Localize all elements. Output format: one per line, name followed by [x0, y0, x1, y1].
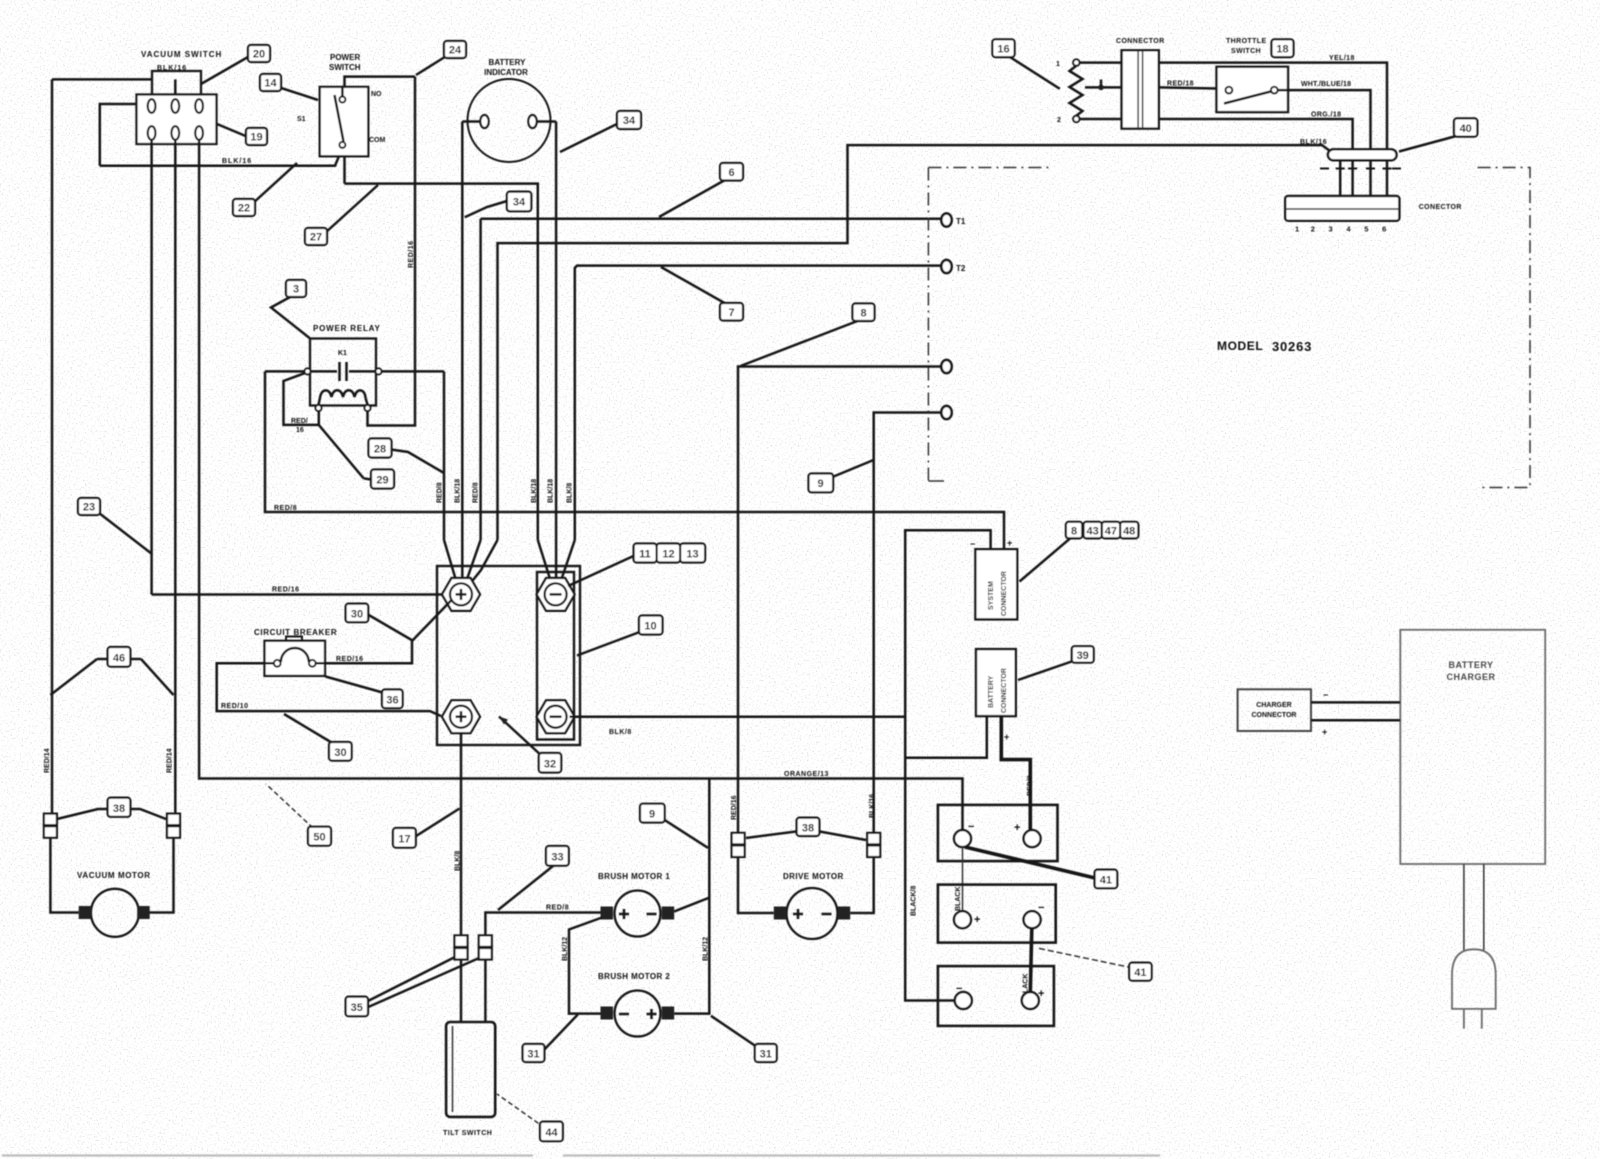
terminal 4 oval	[941, 406, 951, 419]
svg-text:19: 19	[250, 132, 262, 144]
svg-text:SYSTEM: SYSTEM	[988, 581, 995, 610]
vacuum switch pin 1	[148, 99, 156, 113]
svg-text:CHARGER: CHARGER	[1256, 702, 1291, 709]
svg-text:12: 12	[662, 549, 674, 561]
svg-text:38: 38	[802, 823, 814, 835]
wire terminal 3	[738, 367, 941, 833]
wire battery indicator left pin stub	[462, 120, 480, 123]
callout 30 lower	[284, 714, 352, 761]
svg-text:CONNECTOR: CONNECTOR	[1252, 712, 1297, 719]
wire system connector minus loop to BLACK/8 bus	[905, 530, 990, 1000]
brush motor 2 brush left	[601, 1007, 614, 1020]
svg-text:BLK/18: BLK/18	[531, 479, 538, 503]
callout 34 lower	[465, 192, 532, 218]
wire resistor bottom to connector	[1080, 118, 1122, 121]
svg-text:DRIVE MOTOR: DRIVE MOTOR	[783, 872, 844, 881]
svg-text:7: 7	[728, 307, 734, 319]
wire top-left horizontal to vacuum switch tab	[52, 78, 152, 81]
svg-text:16: 16	[997, 44, 1009, 56]
svg-text:10: 10	[644, 621, 656, 633]
svg-text:TILT SWITCH: TILT SWITCH	[443, 1130, 492, 1137]
svg-text:9: 9	[649, 809, 655, 821]
svg-text:−: −	[968, 821, 974, 833]
wire charger connector lower lead	[1311, 719, 1400, 722]
svg-text:+: +	[974, 914, 980, 926]
battery 1 box	[938, 805, 1058, 861]
wire RED/16 from NO down to relay	[368, 77, 416, 426]
brush motor 1 plus sign	[619, 909, 629, 919]
svg-text:35: 35	[351, 1002, 363, 1014]
svg-text:−: −	[1038, 902, 1044, 914]
dashed harness boundary left edge	[927, 168, 929, 482]
svg-text:6: 6	[1382, 225, 1386, 234]
svg-text:18: 18	[1276, 44, 1288, 56]
callout 39	[1018, 646, 1094, 680]
svg-text:ORANGE/13: ORANGE/13	[784, 771, 829, 778]
circuit breaker tab	[286, 637, 302, 642]
wire resistor center tap to connector	[1085, 86, 1122, 89]
connector inner lines	[1137, 50, 1139, 128]
battery 1 minus terminal	[954, 830, 971, 847]
wire battery indicator right pin stub	[537, 120, 556, 123]
terminal 3 oval	[941, 360, 951, 373]
callout 19	[217, 124, 267, 145]
svg-text:BLACK: BLACK	[955, 887, 962, 912]
svg-text:34: 34	[623, 115, 636, 127]
svg-text:50: 50	[313, 832, 325, 844]
inline connector (vacuum right)	[167, 814, 180, 838]
charger plug body	[1452, 949, 1496, 1009]
harness connector oval	[1328, 149, 1397, 160]
svg-text:VACUUM SWITCH: VACUUM SWITCH	[141, 50, 222, 59]
solenoid box	[437, 566, 580, 745]
resistor coil zig-zag	[1070, 66, 1083, 116]
callout 41 upper	[965, 847, 1117, 888]
battery connector box	[976, 649, 1016, 716]
battery 3 plus terminal	[1022, 992, 1039, 1009]
circuit breaker right contact	[309, 660, 316, 667]
svg-text:CONNECTOR: CONNECTOR	[1001, 571, 1008, 616]
wire breaker right RED/16 to solenoid plus	[316, 600, 452, 664]
callout 27	[305, 185, 378, 245]
svg-text:3: 3	[293, 284, 299, 296]
svg-text:BLK/16: BLK/16	[1300, 139, 1327, 146]
vacuum switch pin 2	[171, 99, 179, 113]
wire drive motor left lead lower	[738, 857, 774, 913]
svg-text:+: +	[1038, 988, 1044, 1000]
svg-text:BLK/8: BLK/8	[567, 483, 574, 503]
wire T1	[481, 218, 941, 221]
svg-text:41: 41	[1100, 875, 1112, 887]
callout 38 right	[746, 818, 866, 840]
circuit breaker left contact	[274, 660, 281, 667]
wire charger connector upper lead	[1311, 701, 1400, 704]
circuit breaker arc	[281, 648, 309, 662]
wire RED/16 from pin4 to solenoid plus	[152, 593, 442, 596]
power switch enclosure	[345, 77, 416, 184]
wire relay top left	[265, 370, 305, 373]
svg-text:BLK/18: BLK/18	[455, 479, 462, 503]
pin numbers 1-6	[1295, 225, 1386, 234]
wire BLK/16 to power switch COM	[100, 148, 343, 166]
relay contact wires	[311, 370, 338, 373]
svg-text:WHT./BLUE/18: WHT./BLUE/18	[1301, 81, 1351, 88]
charger connector box	[1238, 689, 1311, 731]
svg-text:RED/8: RED/8	[437, 482, 444, 503]
svg-text:RED/10: RED/10	[221, 703, 249, 710]
callout 31 left	[523, 1015, 578, 1063]
callout 18	[1272, 39, 1294, 57]
tilt switch body	[446, 1022, 495, 1117]
svg-text:38: 38	[113, 803, 125, 815]
six pin connector inner line	[1285, 208, 1399, 210]
harness wire 4 below oval	[1386, 160, 1389, 196]
callout 16	[992, 39, 1059, 89]
svg-text:9: 9	[817, 478, 823, 490]
svg-text:CONECTOR: CONECTOR	[1419, 204, 1462, 211]
wire vacuum pin4 vertical (RED/16 to solenoid)	[150, 140, 153, 595]
brush motor 2 body	[615, 991, 661, 1037]
wire battery indicator left down to solenoid plus	[461, 122, 464, 541]
svg-text:40: 40	[1460, 123, 1472, 135]
brush motor 1 brush left	[601, 907, 614, 920]
svg-text:NO: NO	[371, 91, 382, 98]
harness wire 2 below oval	[1351, 160, 1354, 196]
svg-text:RED/8: RED/8	[274, 505, 297, 512]
callout 24	[416, 41, 466, 75]
svg-text:14: 14	[264, 78, 277, 90]
wire vacuum motor right lead	[149, 838, 173, 913]
wire coil left loop to contact	[284, 373, 319, 425]
relay contact bars	[338, 362, 341, 381]
wire RED/18 to throttle switch	[1159, 87, 1217, 88]
svg-text:1: 1	[1295, 225, 1299, 234]
svg-text:31: 31	[527, 1049, 539, 1061]
svg-text:RED/16: RED/16	[336, 656, 364, 663]
svg-text:THROTTLE: THROTTLE	[1226, 38, 1267, 45]
callout 44	[497, 1094, 563, 1141]
svg-text:BLACK/8: BLACK/8	[911, 886, 918, 916]
svg-text:RED/14: RED/14	[44, 748, 51, 773]
svg-text:13: 13	[686, 549, 698, 561]
vacuum switch tab	[152, 71, 201, 96]
svg-text:44: 44	[545, 1127, 558, 1139]
callout 38 left	[57, 798, 166, 819]
callout 29	[319, 425, 394, 489]
wire T2	[575, 266, 941, 268]
tick on center tap	[1100, 80, 1103, 88]
vacuum motor brush left	[79, 906, 92, 919]
svg-text:−: −	[956, 983, 962, 995]
svg-text:−: −	[1323, 690, 1328, 700]
svg-text:11: 11	[639, 549, 651, 561]
callout 7	[661, 267, 743, 321]
callout 34 upper	[560, 111, 641, 152]
svg-text:RED/16: RED/16	[408, 240, 415, 268]
svg-text:RED/14: RED/14	[167, 748, 174, 773]
inline connector (tilt right)	[479, 935, 492, 959]
inline connector (vacuum left)	[44, 814, 57, 838]
svg-text:+: +	[1004, 732, 1009, 742]
svg-text:31: 31	[760, 1049, 772, 1061]
drive motor brush right	[838, 907, 851, 920]
terminal T1	[941, 213, 951, 226]
callout 11	[568, 544, 657, 587]
callout 8 43 47 48	[1020, 522, 1139, 582]
battery indicator pin right	[528, 115, 536, 128]
svg-text:29: 29	[376, 475, 388, 487]
callout 33	[498, 846, 569, 910]
switch COM contact	[339, 142, 345, 148]
wire battery 1 minus to battery 2 plus jumper	[962, 847, 964, 911]
wire vacuum motor left lead	[50, 838, 78, 913]
throttle switch lever	[1224, 92, 1271, 104]
svg-text:20: 20	[253, 49, 265, 61]
callout 12	[657, 544, 681, 563]
throttle switch left contact	[1226, 87, 1233, 94]
brush motor 2 plus sign	[647, 1009, 657, 1019]
callout 32	[499, 717, 561, 773]
svg-text:−: −	[970, 539, 975, 549]
brush motor 1 body	[615, 891, 661, 937]
wire RED/8 to brush motor 1	[485, 913, 600, 936]
power switch S1 box	[320, 87, 369, 156]
svg-text:33: 33	[551, 852, 563, 864]
wire relay right edge down to solenoid plus	[443, 371, 446, 540]
svg-text:RED/18: RED/18	[1167, 81, 1194, 88]
svg-text:T2: T2	[956, 264, 966, 273]
battery 1 plus terminal	[1024, 830, 1041, 847]
svg-text:BLK/8: BLK/8	[609, 729, 632, 736]
six pin connector body	[1285, 196, 1399, 221]
solenoid terminal plus bottom	[442, 700, 480, 733]
callout 35	[346, 958, 478, 1017]
svg-text:BLK/12: BLK/12	[562, 937, 569, 961]
solenoid terminal plus top	[442, 578, 480, 611]
drive motor plus sign	[793, 909, 803, 919]
svg-text:39: 39	[1077, 650, 1089, 662]
svg-text:+: +	[1322, 727, 1327, 737]
wire breaker left RED/10 loop to solenoid plus bottom	[217, 663, 441, 716]
wire BLK/12 brush motor 1 to 2 (left side)	[569, 918, 602, 1014]
svg-text:5: 5	[1364, 225, 1368, 234]
circuit breaker box	[265, 641, 326, 676]
callout 23	[78, 498, 152, 554]
wire ORANGE/13 run to battery 1 minus	[199, 777, 962, 830]
callout 31 right	[711, 1016, 777, 1062]
power relay box K1	[310, 339, 376, 406]
junction dot on center tap	[1098, 85, 1104, 91]
svg-text:3: 3	[1329, 225, 1333, 234]
relay contact right terminal	[376, 368, 382, 374]
wire terminal 4	[874, 413, 941, 833]
relay coil	[319, 390, 368, 404]
wire battery 2 minus to battery 3 plus jumper (thick)	[1030, 928, 1032, 992]
svg-text:RED/16: RED/16	[731, 795, 738, 820]
battery 2 minus terminal	[1024, 911, 1041, 928]
battery 2 box	[938, 885, 1056, 943]
throttle switch box	[1217, 67, 1289, 112]
wire left outer vertical (to vacuum motor)	[51, 79, 54, 813]
relay coil left terminal	[316, 405, 322, 411]
svg-text:BLK/16: BLK/16	[222, 158, 252, 165]
inline connector (tilt left)	[455, 935, 468, 959]
wire vacuum pin6 vertical (ORANGE/13)	[198, 140, 201, 778]
svg-text:24: 24	[449, 45, 462, 57]
svg-text:VACUUM MOTOR: VACUUM MOTOR	[77, 871, 151, 880]
drive motor minus sign	[822, 913, 832, 916]
callout 8	[741, 304, 875, 367]
switch NO stub	[341, 87, 344, 96]
svg-text:30: 30	[334, 747, 346, 759]
svg-text:43: 43	[1086, 525, 1098, 537]
inline connector (drive left)	[732, 833, 745, 857]
vacuum switch pin 5	[171, 126, 179, 140]
scan artifact bottom line right	[563, 1154, 1160, 1156]
charger plug prong right	[1481, 1009, 1483, 1029]
charger cord left	[1463, 864, 1465, 951]
svg-text:47: 47	[1105, 525, 1117, 537]
wire from solenoid plus bottom down to tilt switch	[460, 733, 463, 935]
svg-text:BATTERY: BATTERY	[988, 675, 995, 708]
callout 30 upper	[346, 604, 413, 641]
callout 14	[260, 74, 318, 100]
wire battery connector minus pin	[905, 716, 987, 758]
battery indicator circle	[468, 79, 551, 162]
wire T1 corner down to solenoid plus	[479, 219, 482, 540]
drive motor brush left	[774, 907, 787, 920]
svg-text:+: +	[1007, 538, 1012, 548]
wire enclosure bottom run to solenoid minus	[345, 184, 538, 540]
svg-text:T1: T1	[956, 217, 966, 226]
inline connector (drive right)	[867, 833, 880, 857]
svg-text:1: 1	[1056, 61, 1060, 68]
svg-text:23: 23	[83, 502, 95, 514]
solenoid terminal minus top	[537, 578, 575, 611]
svg-text:BLK/12: BLK/12	[703, 937, 710, 961]
battery 2 plus terminal	[954, 911, 971, 928]
switch NO contact	[339, 97, 345, 103]
svg-text:MODEL: MODEL	[1217, 339, 1263, 353]
system connector box	[975, 549, 1017, 619]
svg-text:BRUSH MOTOR 1: BRUSH MOTOR 1	[598, 872, 670, 881]
relay contact left terminal	[305, 368, 311, 374]
svg-text:SWITCH: SWITCH	[329, 63, 361, 72]
svg-text:RED/8: RED/8	[473, 482, 480, 503]
svg-text:BLK/18: BLK/18	[548, 479, 555, 503]
svg-text:2: 2	[1057, 117, 1061, 124]
dashed harness boundary top-left segment	[928, 167, 1049, 169]
callout 17	[393, 809, 460, 848]
brush motor 1 minus sign	[647, 913, 657, 916]
vacuum switch pin 4	[148, 126, 156, 140]
callout 6	[659, 163, 743, 217]
wire relay top right to corner	[382, 370, 445, 373]
svg-text:46: 46	[113, 653, 125, 665]
wire funnel right group into solenoid minus	[538, 540, 551, 582]
svg-text:BATTERY: BATTERY	[1449, 660, 1494, 670]
svg-text:17: 17	[398, 834, 410, 846]
svg-text:48: 48	[1123, 525, 1135, 537]
wire funnel left group into solenoid plus	[444, 540, 457, 582]
tilt switch inner shade	[452, 1026, 454, 1112]
svg-text:30: 30	[351, 609, 363, 621]
battery charger box	[1400, 630, 1545, 864]
svg-text:INDICATOR: INDICATOR	[484, 68, 528, 77]
vacuum switch connector body	[137, 95, 217, 145]
callout 3	[271, 280, 310, 338]
charger cord right	[1483, 864, 1485, 951]
connector body (top right)	[1122, 50, 1159, 128]
battery 3 minus terminal	[955, 992, 972, 1009]
svg-text:22: 22	[238, 203, 250, 215]
callout 36	[326, 677, 403, 709]
wire tilt switch left lead	[460, 960, 463, 1024]
svg-text:27: 27	[310, 232, 322, 244]
svg-text:BLK/16: BLK/16	[869, 794, 876, 818]
wire vacuum pin5 vertical (to vacuum motor)	[174, 140, 177, 814]
battery 3 box	[938, 966, 1054, 1026]
svg-text:BATTERY: BATTERY	[489, 58, 527, 67]
wire bracket from pin1 to BLK/16 run	[100, 104, 137, 166]
wire battery indicator right down to solenoid minus	[555, 122, 558, 541]
callout 9 lower	[640, 804, 708, 848]
wire tilt switch right lead	[484, 960, 487, 1024]
scan artifact bottom line left	[2, 1154, 533, 1156]
callout 28	[369, 439, 445, 474]
charger plug prong left	[1463, 1009, 1465, 1029]
callout 9 upper	[809, 460, 874, 492]
callout 13	[680, 544, 705, 563]
pin ticks on harness wires	[1320, 168, 1401, 170]
wire drive motor right lead lower	[850, 857, 874, 913]
wire BLK/12 brush motor right side riser	[674, 779, 709, 912]
callout 10	[577, 616, 663, 656]
svg-text:34: 34	[513, 197, 526, 209]
wire ORG./18	[1159, 119, 1353, 149]
wire BLK/8 from solenoid minus bottom	[570, 715, 906, 718]
svg-text:K1: K1	[338, 350, 347, 357]
svg-text:POWER: POWER	[330, 53, 360, 62]
callout 22	[233, 163, 297, 216]
svg-text:2: 2	[1311, 225, 1315, 234]
wire WHT./BLUE/18	[1278, 90, 1371, 149]
vacuum switch pin 6	[195, 126, 203, 140]
svg-text:32: 32	[544, 759, 556, 771]
svg-text:YEL/18: YEL/18	[1329, 55, 1355, 62]
svg-text:RED/8: RED/8	[1027, 775, 1034, 796]
throttle switch right contact	[1271, 87, 1278, 94]
solenoid inner housing	[537, 572, 574, 740]
callout 20	[201, 45, 270, 84]
wire stub into tab to middle pin	[174, 79, 177, 99]
brush motor 2 brush right	[662, 1007, 675, 1020]
wire relay outer box left and long RED/8 run to system connector	[265, 371, 1004, 549]
wire battery connector plus pin (thick) to battery 1 plus	[1001, 716, 1030, 830]
terminal T2	[941, 260, 951, 273]
wire T2 corner down to solenoid minus	[574, 267, 577, 540]
svg-text:RED/: RED/	[291, 418, 308, 425]
solenoid terminal minus bottom	[537, 700, 575, 733]
relay coil right terminal	[365, 405, 371, 411]
svg-text:POWER RELAY: POWER RELAY	[313, 324, 381, 333]
dashed harness boundary top-right segment	[1478, 168, 1530, 488]
wire resistor top to connector	[1080, 61, 1122, 64]
svg-text:36: 36	[386, 695, 398, 707]
callout 41 lower	[1037, 948, 1152, 981]
wire YEL/18	[1159, 63, 1387, 150]
vacuum switch pin 3	[195, 99, 203, 113]
